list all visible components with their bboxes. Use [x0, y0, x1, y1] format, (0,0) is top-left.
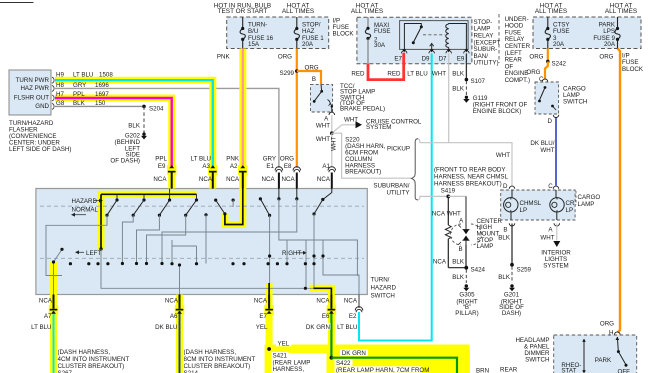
fuse PARK LPS FUSE 9 20A	[593, 17, 620, 49]
ground G201	[498, 267, 524, 318]
svg-text:LP: LP	[566, 207, 574, 214]
highlight NCA path inside switch (hazard feed)	[101, 168, 243, 249]
wire WHT suburban route to S419	[418, 196, 448, 200]
highlight yellow band S421/S422 area	[265, 345, 470, 373]
svg-text:BLK: BLK	[73, 100, 86, 107]
wire WHT TCC to S220	[316, 115, 332, 133]
svg-text:RIGHT: RIGHT	[282, 250, 301, 257]
label TCC switch	[340, 83, 385, 112]
svg-text:HAZARD: HAZARD	[371, 285, 397, 292]
svg-text:TEST OR START: TEST OR START	[218, 8, 268, 15]
svg-text:DK GRN: DK GRN	[306, 324, 330, 331]
svg-text:ENGINE BLOCK): ENGINE BLOCK)	[473, 108, 521, 115]
relay terminal E7	[394, 49, 407, 62]
cargo lamp switch box	[535, 79, 587, 114]
svg-text:ALL TIMES: ALL TIMES	[351, 8, 383, 15]
svg-text:(DASH HARNESS,: (DASH HARNESS,	[58, 349, 111, 356]
svg-text:D7: D7	[439, 55, 447, 62]
left legend	[75, 250, 101, 257]
svg-text:GND: GND	[35, 103, 49, 110]
terminal A3	[191, 156, 217, 189]
splice S259	[510, 263, 531, 274]
svg-text:FLSHR OUT: FLSHR OUT	[14, 95, 49, 102]
svg-text:E9: E9	[158, 163, 166, 170]
relay U: stop lamp relay internals	[400, 21, 469, 50]
svg-text:NCA: NCA	[165, 298, 179, 305]
svg-text:E9: E9	[457, 55, 465, 62]
svg-text:H9: H9	[56, 72, 64, 79]
svg-text:(REAR LAMP HARN, 7CM FROM: (REAR LAMP HARN, 7CM FROM	[336, 367, 429, 373]
wire GRY 1696 run	[55, 88, 279, 168]
svg-text:DASH): DASH)	[502, 310, 521, 317]
park switch blade	[616, 337, 628, 367]
svg-text:BLK: BLK	[498, 274, 511, 281]
splice S107	[465, 78, 486, 85]
NCA feed bus (yellow highlighted)	[99, 194, 196, 250]
highlight PNK wire	[239, 49, 246, 169]
svg-text:TURN/: TURN/	[371, 277, 390, 284]
contact dots row 3	[52, 248, 325, 290]
svg-text:LPS: LPS	[603, 28, 615, 35]
wire ORG from fuse 1	[278, 49, 297, 169]
output E7 YEL	[254, 295, 273, 332]
svg-text:NCA: NCA	[199, 176, 213, 183]
svg-text:YEL: YEL	[278, 341, 290, 348]
terminal D	[503, 183, 515, 190]
contact dots row 1	[115, 197, 324, 201]
highlight connectors E9 A3 A2	[172, 165, 243, 189]
terminal D of cargo switch	[548, 115, 559, 125]
splice S421	[267, 340, 310, 373]
center high mount stop lamp	[451, 196, 503, 253]
svg-text:20A: 20A	[553, 41, 565, 48]
terminal E1	[262, 156, 283, 189]
svg-text:B: B	[458, 246, 462, 253]
svg-text:CLUSTER BREAKOUT): CLUSTER BREAKOUT)	[58, 363, 125, 370]
svg-text:D9: D9	[422, 55, 430, 62]
highlight YEL E7 output	[266, 283, 273, 345]
dashed detent line 2	[40, 257, 364, 259]
svg-text:S422: S422	[336, 360, 351, 367]
svg-text:PPL: PPL	[73, 91, 85, 98]
lamp CR LP	[550, 190, 575, 220]
svg-text:20A: 20A	[604, 41, 616, 48]
svg-text:S299: S299	[280, 70, 295, 77]
relay terminal D9	[422, 49, 435, 62]
right legend	[282, 250, 307, 257]
svg-text:SWITCH: SWITCH	[525, 357, 549, 364]
svg-text:CHMSL: CHMSL	[520, 200, 542, 207]
wire LT BLU 1508	[55, 72, 213, 168]
TCC stop lamp switch	[311, 84, 333, 112]
ground G202	[110, 106, 147, 164]
I/P fuse block (left)	[214, 3, 355, 49]
svg-text:FUSE: FUSE	[553, 28, 570, 35]
label turn/hazard flasher	[9, 120, 71, 153]
svg-text:ORG: ORG	[278, 54, 292, 61]
E6 output corner inside box	[314, 288, 332, 294]
svg-text:BREAKOUT): BREAKOUT)	[345, 169, 381, 176]
terminal A2	[226, 156, 246, 189]
highlight LT BLU 1508 wire	[55, 80, 213, 168]
svg-text:A7: A7	[44, 313, 52, 320]
svg-text:YEL: YEL	[256, 324, 268, 331]
svg-text:CLUSTER BREAKOUT): CLUSTER BREAKOUT)	[184, 363, 251, 370]
svg-text:B/U: B/U	[248, 28, 258, 35]
svg-text:PILLAR): PILLAR)	[455, 310, 478, 317]
wire PNK from fuse 16	[217, 49, 243, 169]
svg-text:HAZ: HAZ	[302, 28, 315, 35]
wire RED from maxi fuse to relay E7	[351, 53, 403, 80]
branch to cruise control	[332, 116, 422, 133]
svg-text:H8: H8	[56, 82, 64, 89]
svg-text:BLK: BLK	[128, 123, 141, 130]
svg-text:CR: CR	[566, 200, 575, 207]
terminal B below chmsl	[503, 223, 514, 233]
svg-text:LT BLU: LT BLU	[191, 156, 211, 163]
headlamp & panel dimmer switch box	[515, 335, 636, 373]
svg-text:SYSTEM: SYSTEM	[366, 124, 391, 131]
svg-text:S204: S204	[149, 106, 164, 113]
svg-text:ORG: ORG	[529, 54, 543, 61]
wire NCA with resistor	[432, 196, 466, 267]
lamp CHMSL LP	[504, 190, 542, 220]
svg-text:E7: E7	[394, 55, 402, 62]
wire WHT to interior lights	[540, 224, 571, 270]
svg-text:1508: 1508	[99, 72, 113, 79]
svg-text:LT BLU: LT BLU	[407, 70, 427, 77]
wire LT BLU E2 label	[0, 0, 1, 1]
svg-text:BLOCK: BLOCK	[622, 66, 644, 73]
svg-text:S242: S242	[552, 60, 567, 67]
underhood fuse relay center box	[351, 3, 472, 64]
svg-text:COMPT.): COMPT.)	[505, 77, 530, 84]
bracket dashed	[498, 14, 500, 63]
svg-text:TURN PWR: TURN PWR	[16, 77, 50, 84]
svg-text:LT BLU: LT BLU	[31, 324, 51, 331]
splice S422 and DK GRN run	[330, 349, 458, 373]
svg-text:NCA: NCA	[316, 298, 330, 305]
svg-text:NCA: NCA	[433, 259, 447, 266]
svg-text:C: C	[548, 183, 553, 190]
svg-text:B: B	[503, 227, 507, 234]
svg-text:NCA: NCA	[344, 298, 358, 305]
wire GRY 1696	[56, 82, 109, 89]
wire WHT from relay D7	[432, 53, 449, 142]
svg-text:HAZARD: HAZARD	[72, 198, 98, 205]
splice S242	[546, 60, 567, 68]
svg-text:BLK: BLK	[452, 70, 465, 77]
svg-text:RED: RED	[351, 70, 365, 77]
svg-text:WHT: WHT	[316, 136, 330, 143]
label UNDER-HOOD FUSE RELAY CENTER	[505, 16, 531, 84]
turn/hazard switch box body	[36, 189, 367, 295]
svg-text:BLK: BLK	[452, 259, 465, 266]
splice S204	[142, 105, 164, 113]
svg-text:BLK: BLK	[452, 86, 465, 93]
label front-to-rear harness	[434, 167, 508, 195]
svg-text:WHT: WHT	[496, 152, 510, 159]
svg-text:15A: 15A	[248, 41, 260, 48]
splice S424	[464, 266, 485, 274]
relay terminal E9	[444, 49, 470, 62]
svg-text:E2: E2	[349, 313, 357, 320]
turn/hazard flasher box	[9, 70, 54, 115]
svg-text:E8: E8	[284, 163, 292, 170]
svg-text:WHT: WHT	[432, 70, 446, 77]
svg-text:UTILITY: UTILITY	[386, 190, 409, 197]
svg-text:S424: S424	[471, 267, 486, 274]
svg-text:SUBURBAN/: SUBURBAN/	[373, 183, 409, 190]
svg-text:NORMAL: NORMAL	[72, 207, 99, 214]
svg-text:E6: E6	[322, 313, 330, 320]
svg-text:ALL TIMES: ALL TIMES	[282, 8, 314, 15]
svg-text:HARNESS, NEAR CHMSL: HARNESS, NEAR CHMSL	[434, 174, 508, 181]
svg-text:CARGO: CARGO	[578, 194, 601, 201]
splice S419	[446, 195, 450, 199]
svg-text:FUSE: FUSE	[374, 28, 391, 35]
highlight DK GRN E6 output	[310, 288, 332, 345]
terminal H	[615, 332, 621, 335]
svg-text:S419: S419	[441, 187, 456, 194]
svg-text:WHT: WHT	[540, 147, 554, 154]
svg-text:LEFT SIDE OF DASH): LEFT SIDE OF DASH)	[9, 146, 71, 153]
svg-text:PARK: PARK	[595, 357, 612, 364]
wire stub top-left	[0, 2, 34, 4]
wire ORG park fuse down	[599, 49, 620, 337]
svg-text:ORG: ORG	[599, 54, 613, 61]
svg-text:WHT: WHT	[316, 122, 330, 129]
fuse STOP/HAZ FUSE 1 20A	[294, 17, 324, 49]
svg-text:HARNESS,: HARNESS,	[273, 366, 305, 373]
svg-text:NCA: NCA	[39, 298, 53, 305]
svg-text:GRY: GRY	[263, 156, 276, 163]
svg-text:SWITCH: SWITCH	[371, 293, 395, 300]
terminal A of TCC	[324, 112, 334, 123]
wire DK BLU/WHT cargo switch to lamp	[530, 118, 556, 187]
entry stubs E1 E8 A1	[279, 189, 332, 200]
cargo lamp box	[501, 190, 601, 220]
NCA jog wire from A2	[225, 189, 243, 225]
svg-text:LT BLU: LT BLU	[337, 324, 357, 331]
wire WHT S220 to suburban brace	[332, 133, 411, 178]
svg-text:NCA: NCA	[432, 211, 446, 218]
output A6 DK BLU	[155, 295, 255, 373]
svg-text:NCA: NCA	[317, 176, 331, 183]
E7 output through box	[268, 283, 270, 295]
wire BLK 150	[55, 100, 144, 107]
svg-text:LAMP: LAMP	[477, 243, 494, 250]
wire ORG branch to TCC switch	[297, 64, 321, 84]
svg-text:ORG: ORG	[526, 69, 540, 76]
output E6 DK GRN	[306, 295, 336, 358]
svg-text:150: 150	[95, 100, 106, 107]
terminal E8	[280, 156, 301, 189]
svg-text:UTILITY): UTILITY)	[474, 60, 499, 67]
fuse MAXI FUSE 2 30A	[365, 17, 390, 64]
highlight left output NCA / LT BLU A7	[50, 262, 57, 373]
terminal A below cr lp	[548, 223, 559, 233]
terminal E9	[153, 156, 175, 189]
svg-text:SWITCH: SWITCH	[563, 99, 587, 106]
svg-text:8CM INTO INSTRUMENT: 8CM INTO INSTRUMENT	[184, 356, 256, 363]
svg-text:BRN: BRN	[476, 368, 489, 373]
svg-text:SYSTEM: SYSTEM	[543, 262, 568, 269]
svg-text:WHT: WHT	[330, 137, 337, 151]
svg-text:PICKUP: PICKUP	[387, 145, 410, 152]
svg-text:BLK: BLK	[498, 235, 511, 242]
ground G119	[452, 81, 527, 115]
dashed detent line 1	[40, 205, 364, 207]
labels BRN REAR	[476, 367, 518, 373]
wire BLK from relay E9	[452, 53, 466, 79]
svg-text:REAR: REAR	[500, 367, 518, 373]
svg-text:DK GRN: DK GRN	[342, 350, 366, 357]
svg-text:GRY: GRY	[73, 82, 86, 89]
ground G305	[452, 270, 478, 318]
svg-text:BLOCK: BLOCK	[333, 30, 355, 37]
svg-text:LAMP: LAMP	[578, 201, 595, 208]
highlight DK BLU A6 output	[176, 295, 183, 373]
svg-text:NCA: NCA	[282, 176, 296, 183]
splice S299	[280, 69, 299, 77]
svg-text:B: B	[312, 76, 316, 83]
svg-text:S259: S259	[517, 267, 532, 274]
label STOP-LAMP RELAY	[474, 19, 501, 67]
svg-text:A3: A3	[202, 163, 210, 170]
svg-text:(DASH HARNESS,: (DASH HARNESS,	[184, 349, 237, 356]
wire WHT to center stop lamp	[447, 196, 466, 224]
wire WHT S220 to A1	[330, 133, 337, 168]
hazard/normal legend	[71, 198, 103, 217]
svg-text:ALL TIMES: ALL TIMES	[535, 8, 567, 15]
rheostat wiper arrow	[582, 339, 586, 373]
svg-text:BLK: BLK	[452, 274, 465, 281]
wire WHT pickup route to CHMSL D	[418, 139, 512, 186]
contact dots row 2	[105, 212, 315, 217]
svg-text:D: D	[503, 183, 508, 190]
svg-text:RED: RED	[387, 70, 401, 77]
wire ORG ctsy fuse to switch	[529, 49, 547, 62]
svg-text:A6: A6	[170, 313, 178, 320]
output A7 LT BLU	[31, 295, 129, 373]
svg-text:NCA: NCA	[262, 176, 276, 183]
svg-text:LP: LP	[520, 207, 528, 214]
svg-text:(FRONT TO REAR BODY: (FRONT TO REAR BODY	[434, 167, 506, 174]
svg-text:HAZ PWR: HAZ PWR	[20, 85, 49, 92]
wire PPL 1697	[55, 91, 172, 168]
svg-text:OFF: OFF	[618, 368, 631, 373]
splice S220	[316, 131, 386, 175]
svg-text:OF DASH): OF DASH)	[110, 158, 140, 165]
svg-text:30A: 30A	[374, 42, 386, 49]
svg-text:A1: A1	[322, 163, 330, 170]
svg-text:LT BLU: LT BLU	[73, 72, 93, 79]
svg-text:ORG: ORG	[280, 156, 294, 163]
svg-text:NCA: NCA	[254, 298, 268, 305]
relay terminal D7	[439, 49, 452, 62]
svg-text:STAT: STAT	[561, 368, 576, 373]
svg-text:NCA: NCA	[226, 176, 240, 183]
svg-text:WHT: WHT	[540, 234, 554, 241]
wire ORG to C	[526, 62, 547, 84]
svg-text:BRAKE PEDAL): BRAKE PEDAL)	[340, 106, 385, 113]
interior routing wires	[46, 199, 359, 295]
svg-text:1696: 1696	[95, 82, 109, 89]
svg-text:A2: A2	[230, 163, 238, 170]
fuse TURN-B/U FUSE 16 15A	[240, 17, 274, 49]
terminal A1	[317, 163, 336, 189]
hazard contact stubs	[117, 189, 197, 201]
terminal C	[548, 183, 559, 190]
svg-text:NCA: NCA	[153, 176, 167, 183]
output E2 LT BLU	[337, 295, 363, 332]
svg-text:4CM INTO INSTRUMENT: 4CM INTO INSTRUMENT	[58, 356, 130, 363]
svg-text:D: D	[548, 118, 553, 125]
svg-text:S107: S107	[471, 78, 486, 85]
svg-text:ORG: ORG	[305, 64, 319, 71]
svg-text:H7: H7	[56, 91, 64, 98]
I/P fuse block (right)	[533, 3, 644, 73]
highlight PPL 1697 wire	[55, 98, 172, 168]
highlight GRY 1696 wire	[0, 0, 1, 1]
fuse CTSY FUSE 3 20A	[545, 17, 569, 49]
svg-text:ALL TIMES: ALL TIMES	[605, 8, 637, 15]
wire LT BLU from relay D9	[359, 53, 432, 340]
wire BLK chmsl to S259	[498, 224, 512, 265]
svg-text:PNK: PNK	[226, 156, 240, 163]
switch blades row 1	[107, 199, 323, 216]
svg-text:PNK: PNK	[217, 54, 231, 61]
svg-text:E1: E1	[266, 163, 274, 170]
svg-text:DK BLU: DK BLU	[155, 324, 177, 331]
svg-text:G8: G8	[56, 100, 65, 107]
svg-text:20A: 20A	[302, 41, 314, 48]
brace pickup/suburban	[373, 139, 418, 200]
svg-text:PPL: PPL	[155, 156, 167, 163]
svg-text:1697: 1697	[95, 91, 109, 98]
svg-text:LEFT: LEFT	[86, 250, 101, 257]
svg-text:E7: E7	[259, 313, 267, 320]
svg-text:ORG: ORG	[600, 321, 614, 328]
wire BLK lamp to S424	[452, 245, 466, 268]
